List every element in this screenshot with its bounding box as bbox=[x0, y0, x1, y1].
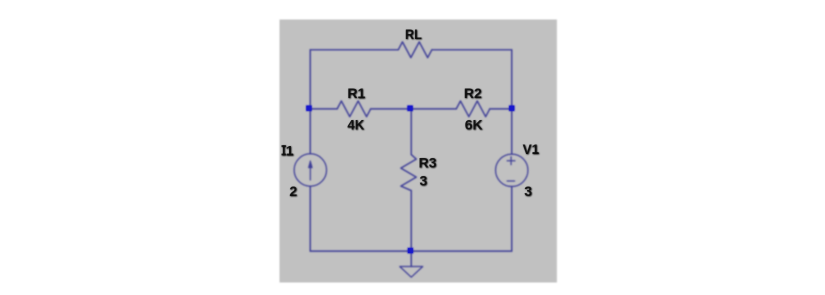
wire: bottom rail right segment bbox=[411, 250, 512, 252]
resistor R3 bbox=[401, 155, 416, 191]
schematic canvas bbox=[280, 20, 557, 283]
node A junction square bbox=[306, 105, 312, 111]
svg-text:1: 1 bbox=[286, 142, 294, 158]
svg-text:3: 3 bbox=[524, 183, 532, 199]
svg-text:2: 2 bbox=[289, 183, 297, 199]
label V1 bbox=[523, 141, 540, 158]
label R1 bbox=[347, 85, 366, 102]
wire: bottom rail left segment bbox=[310, 250, 411, 252]
svg-text:3: 3 bbox=[420, 172, 428, 188]
node B junction square bbox=[407, 105, 413, 111]
resistor R2 bbox=[456, 101, 490, 117]
node C junction square bbox=[509, 105, 515, 111]
value label 6K bbox=[465, 116, 483, 133]
svg-text:6K: 6K bbox=[465, 116, 483, 132]
wire: left branch lower (I1 to bottom rail) bbox=[309, 186, 311, 251]
svg-text:4K: 4K bbox=[347, 116, 364, 132]
wire: R1 to node B bbox=[371, 108, 412, 110]
current source I1 bbox=[294, 154, 326, 186]
wire: R3 to bottom junction bbox=[410, 191, 412, 252]
value label 4K bbox=[347, 116, 364, 133]
wire: right branch upper (top rail to node C) bbox=[511, 50, 513, 109]
node B junction square overlay bbox=[408, 106, 413, 111]
resistor R1 bbox=[337, 101, 371, 117]
wire: node C to V1 bbox=[511, 109, 513, 154]
svg-text:V1: V1 bbox=[523, 141, 540, 157]
label I1 bbox=[282, 142, 295, 159]
value label 2 (I1) bbox=[289, 183, 298, 200]
wire: top rail left segment bbox=[310, 49, 398, 51]
wire: ground stub bbox=[410, 251, 412, 266]
voltage source V1 bbox=[496, 154, 528, 186]
bottom rail junction square bbox=[408, 248, 414, 254]
label R2 bbox=[464, 85, 483, 102]
wire: top rail right segment bbox=[432, 49, 512, 51]
label R3 bbox=[419, 155, 438, 172]
wire: left branch from node A to I1 bbox=[309, 109, 311, 154]
value label 3 (V1) bbox=[524, 183, 533, 200]
wire: node A to R1 bbox=[310, 108, 337, 110]
node A junction square overlay bbox=[307, 106, 312, 111]
label RL bbox=[405, 26, 423, 43]
wire: R2 to node C bbox=[490, 108, 512, 110]
svg-text:R1: R1 bbox=[347, 85, 365, 101]
wire: node B to R3 bbox=[410, 109, 412, 155]
ground bbox=[400, 267, 423, 278]
node C junction square overlay bbox=[509, 106, 514, 111]
wire: right branch lower (V1 to bottom rail) bbox=[511, 187, 513, 252]
wire: node B to R2 bbox=[411, 108, 456, 110]
wire: left branch upper (top rail to node A) bbox=[309, 50, 311, 109]
svg-text:R2: R2 bbox=[464, 85, 482, 101]
resistor RL bbox=[398, 42, 432, 58]
value label 3 (R3) bbox=[420, 172, 429, 189]
svg-text:RL: RL bbox=[405, 26, 422, 42]
svg-text:R3: R3 bbox=[419, 155, 437, 171]
bottom rail junction square overlay bbox=[408, 248, 413, 253]
